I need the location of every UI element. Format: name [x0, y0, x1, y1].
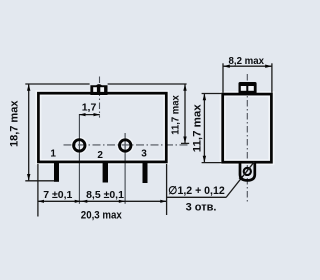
- svg-text:11,7 max: 11,7 max: [170, 95, 181, 135]
- dimension 11,7 max (side view): [203, 94, 205, 163]
- button: side view actuator: [239, 82, 257, 95]
- node: horizontal hole-axis centerline: [64, 144, 190, 146]
- hole 2 halo: [120, 140, 131, 151]
- dimension 8,2 max: [223, 65, 272, 67]
- svg-text:20,3 max: 20,3 max: [81, 209, 123, 221]
- dimension 18,7 max: vertical line: [28, 84, 30, 181]
- wire: extension at hole axis right of body: [181, 142, 189, 144]
- wire: right extension for 8,2: [271, 63, 273, 93]
- wire: top extension for side 11,7: [202, 93, 222, 95]
- pin hole Ø1,2: [244, 168, 251, 175]
- side body halo: [223, 94, 272, 162]
- svg-text:1,7: 1,7: [82, 101, 97, 113]
- body halo: [38, 93, 166, 162]
- wire: bottom extension line at pin tips: [25, 180, 54, 182]
- svg-text:1: 1: [50, 149, 56, 160]
- svg-text:11,7 max: 11,7 max: [192, 104, 204, 152]
- pin 3: [143, 163, 148, 184]
- dimension 1,7: [79, 114, 100, 116]
- node: side view centerline: [246, 74, 248, 204]
- wire: left extension for 8,2: [222, 63, 224, 93]
- leader line for Ø1,2: [226, 162, 254, 198]
- body: front view case outline: [38, 93, 166, 162]
- wire: top extension line at actuator-top level (left of button): [25, 83, 89, 85]
- node: hole A vertical centerline: [78, 114, 80, 204]
- pin tab (side view lead): [240, 163, 255, 180]
- svg-text:7 ±0,1: 7 ±0,1: [43, 189, 72, 201]
- dimension 11,7 max (front view): [184, 84, 186, 143]
- underline of Ø label: [167, 196, 227, 198]
- dimension line 7 / 8,5 / 20,3 (shared): [38, 200, 167, 202]
- node: hole B vertical centerline: [124, 133, 126, 204]
- svg-text:8,2 max: 8,2 max: [229, 55, 265, 67]
- svg-text:∅1,2 + 0,12: ∅1,2 + 0,12: [168, 185, 225, 197]
- wire: top extension line (right of button): [108, 83, 187, 85]
- hole 1 halo: [74, 140, 85, 151]
- svg-text:18,7 max: 18,7 max: [8, 100, 20, 147]
- node: front-view actuator centerline: [99, 77, 101, 118]
- button: front view actuator: [90, 84, 107, 95]
- hole 1 (left mounting hole): [74, 140, 85, 151]
- hole 2 (right mounting hole): [120, 140, 131, 151]
- svg-text:8,5 ±0,1: 8,5 ±0,1: [86, 189, 124, 201]
- svg-text:2: 2: [97, 150, 103, 161]
- pin 2: [103, 163, 108, 183]
- wire: right extension for 20,3: [166, 164, 168, 215]
- svg-text:3 отв.: 3 отв.: [186, 202, 217, 214]
- wire: bottom extension for side 11,7: [202, 162, 222, 164]
- wire: left extension for 20,3: [37, 164, 39, 217]
- body: side view case outline: [223, 94, 272, 162]
- svg-text:3: 3: [141, 148, 147, 159]
- pin 1: [54, 163, 59, 182]
